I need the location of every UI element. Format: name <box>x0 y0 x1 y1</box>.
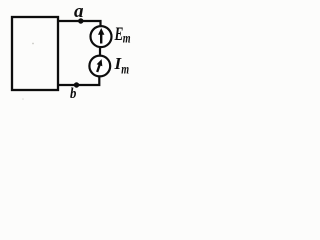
svg-text:b: b <box>70 86 76 102</box>
svg-text:E: E <box>114 23 124 45</box>
svg-text:m: m <box>121 61 129 77</box>
svg-text:a: a <box>74 1 84 22</box>
svg-text:m: m <box>123 30 131 46</box>
